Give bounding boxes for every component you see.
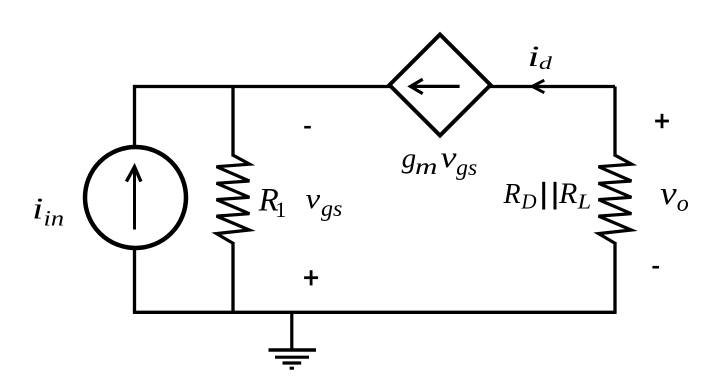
- wire R1 branch bottom stub: [231, 242, 234, 312]
- current source arrow shaft: [133, 169, 136, 230]
- label i_d: [528, 40, 554, 73]
- svg-text:in: in: [44, 206, 65, 231]
- dependent current source G1 diamond: [390, 35, 491, 136]
- polarity plus for v_o: [655, 114, 669, 128]
- svg-text:o: o: [677, 191, 689, 217]
- ground bar 2: [275, 356, 309, 359]
- svg-text:R: R: [558, 177, 577, 210]
- svg-text:L: L: [577, 190, 592, 214]
- label v_gs (gate-source voltage): [306, 184, 343, 221]
- svg-text:i: i: [528, 40, 540, 73]
- current arrow i_d on top-right wire: [532, 80, 544, 93]
- svg-text:i: i: [32, 191, 43, 226]
- label v_o (output voltage): [660, 176, 689, 217]
- label i_in: [32, 191, 64, 231]
- resistor R1 zigzag: [217, 155, 250, 243]
- svg-text:v: v: [441, 141, 458, 174]
- ground bar 1: [269, 348, 317, 351]
- wire left vertical: [133, 85, 136, 312]
- svg-text:v: v: [660, 176, 677, 212]
- svg-text:v: v: [306, 184, 321, 215]
- polarity plus for v_gs: [304, 270, 318, 285]
- wire R1 branch top stub: [231, 87, 234, 157]
- resistor RD||RL zigzag: [599, 155, 632, 243]
- svg-text:gs: gs: [456, 155, 477, 180]
- wire right vertical top stub: [613, 87, 616, 157]
- svg-text:1: 1: [275, 197, 286, 222]
- current source U_iin circle: [85, 147, 186, 248]
- dependent source arrowhead: [410, 79, 422, 93]
- svg-text:R: R: [503, 179, 521, 210]
- polarity minus for v_gs: [304, 126, 311, 129]
- ground bar 3: [283, 361, 302, 364]
- wire bottom (ground rail): [133, 311, 615, 314]
- svg-text:d: d: [539, 53, 553, 73]
- ground bar 4: [290, 367, 294, 370]
- svg-text:m: m: [415, 154, 438, 179]
- label RD||RL: [503, 177, 592, 214]
- svg-text:gs: gs: [321, 196, 342, 221]
- label R1: [258, 183, 287, 222]
- dependent source arrow shaft: [413, 85, 460, 88]
- ground stem wire: [290, 312, 293, 350]
- wire top (node G rail): [135, 85, 616, 88]
- svg-text:g: g: [402, 142, 417, 174]
- wire right vertical bottom stub: [613, 242, 616, 314]
- current source arrowhead: [126, 167, 140, 182]
- label g_m v_gs: [402, 141, 478, 180]
- polarity minus for v_o: [652, 266, 659, 269]
- svg-text:D: D: [520, 190, 536, 214]
